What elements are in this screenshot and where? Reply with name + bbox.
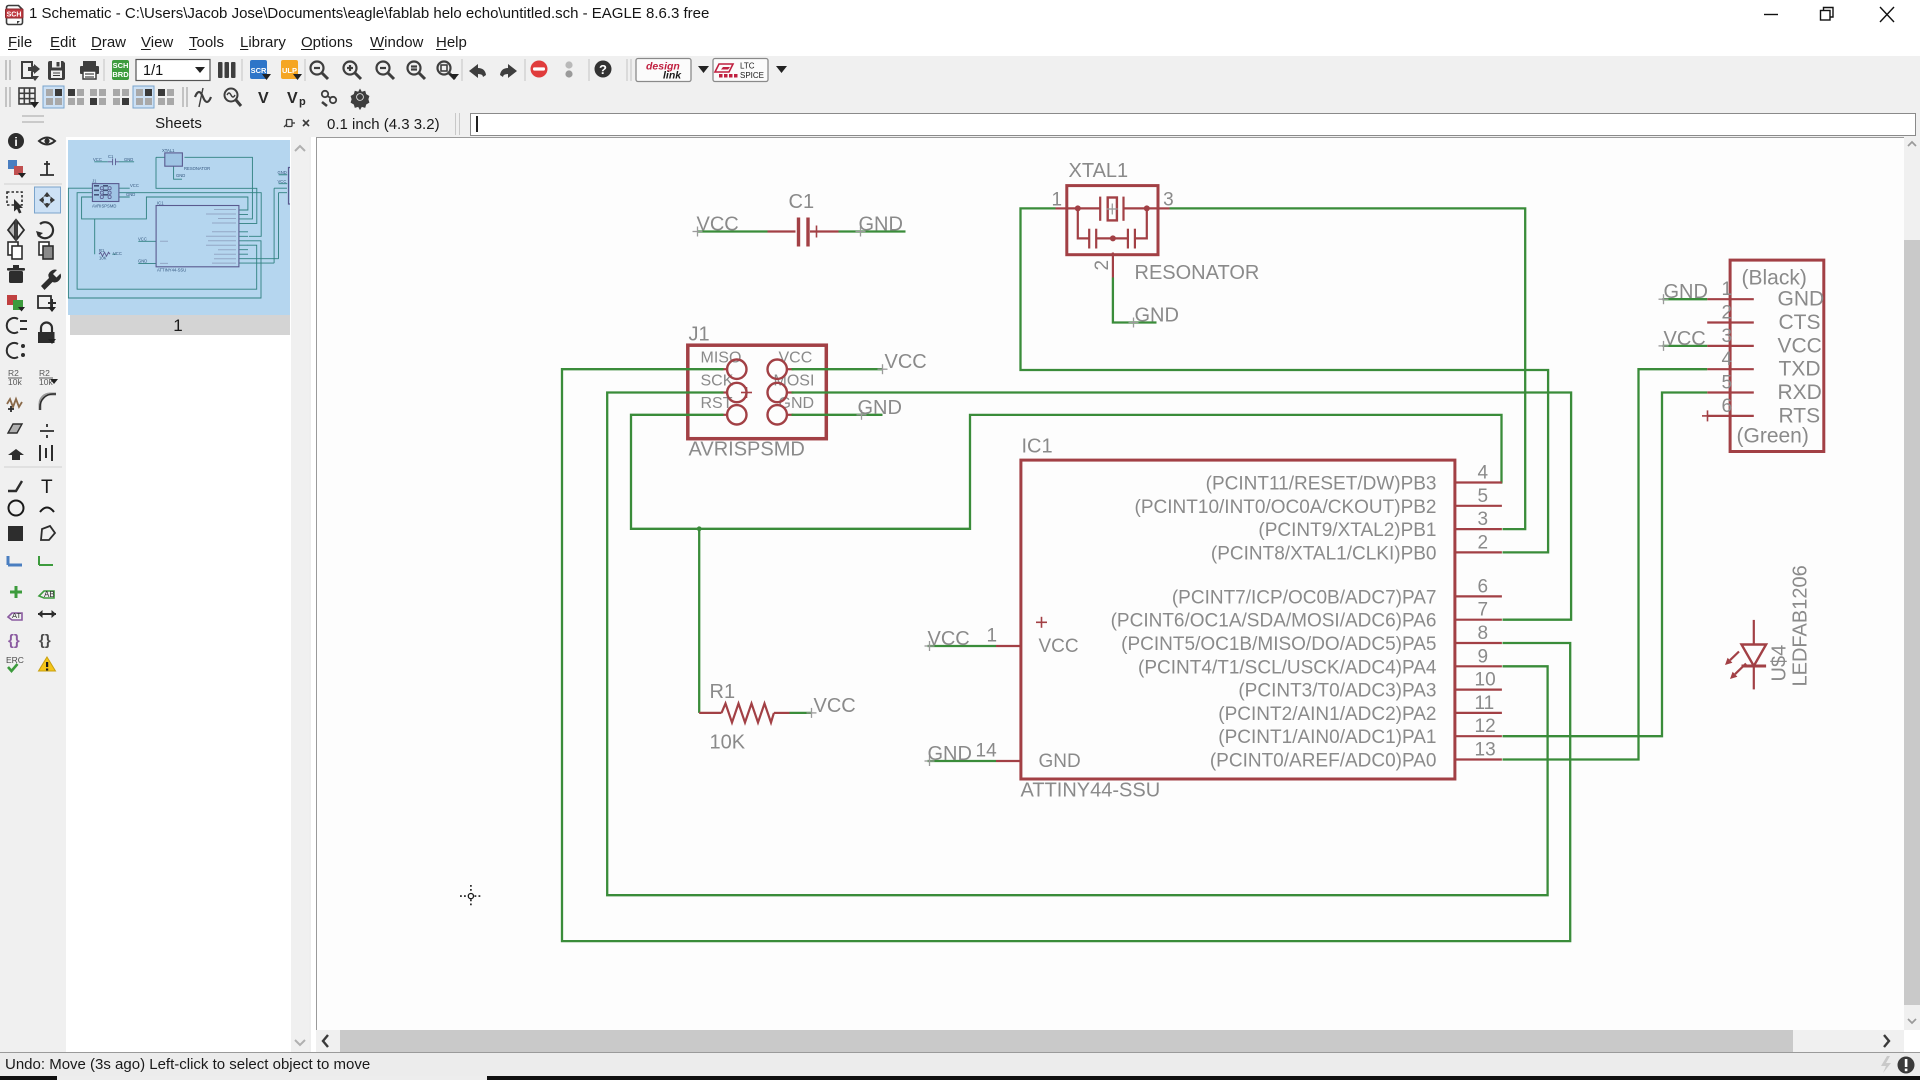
svg-text:(PCINT4/T1/SCL/USCK/ADC4)PA4: (PCINT4/T1/SCL/USCK/ADC4)PA4	[1138, 657, 1437, 678]
svg-text:AB: AB	[44, 590, 55, 599]
svg-text:XTAL1: XTAL1	[162, 148, 175, 153]
svg-text:6: 6	[1478, 576, 1489, 597]
svg-text:14: 14	[976, 741, 998, 762]
svg-text:GND: GND	[176, 173, 185, 178]
svg-text:J1: J1	[92, 179, 97, 184]
svg-text:7: 7	[1478, 600, 1489, 621]
svg-text:(PCINT9/XTAL2)PB1: (PCINT9/XTAL2)PB1	[1258, 520, 1436, 541]
svg-text:2: 2	[1092, 260, 1113, 271]
svg-text:VCC: VCC	[113, 251, 122, 256]
resistor R1 10K	[699, 681, 789, 754]
svg-text:VCC: VCC	[814, 695, 856, 717]
svg-text:LTC: LTC	[740, 62, 755, 71]
svg-text:GND: GND	[126, 192, 135, 197]
svg-text:9: 9	[1478, 646, 1489, 667]
svg-text:VCC: VCC	[278, 179, 287, 184]
svg-text:i: i	[14, 135, 17, 149]
svg-text:(PCINT0/AREF/ADC0)PA0: (PCINT0/AREF/ADC0)PA0	[1210, 751, 1437, 772]
wire net RESET (J1 RST to IC1 PB3)	[631, 415, 1503, 529]
svg-text:10: 10	[1475, 670, 1496, 691]
wire net XTAL pin3 to IC1 PB1	[1170, 208, 1526, 529]
svg-text:ATTINY44-SSU: ATTINY44-SSU	[157, 268, 186, 273]
wire net GND at XTAL pin2	[1113, 278, 1179, 328]
svg-text:AVRISPSMD: AVRISPSMD	[92, 204, 116, 209]
svg-text:VCC: VCC	[779, 350, 813, 367]
svg-text:8: 8	[1478, 623, 1489, 644]
svg-text:SCR: SCR	[251, 66, 267, 75]
svg-text:SPICE: SPICE	[740, 71, 764, 80]
svg-text:3: 3	[1722, 326, 1733, 347]
svg-text:p: p	[299, 96, 306, 108]
svg-text:T: T	[41, 477, 53, 498]
svg-text:ATTINY44-SSU: ATTINY44-SSU	[1021, 780, 1161, 802]
svg-text:GND: GND	[278, 170, 287, 175]
svg-text:CTS: CTS	[1779, 311, 1821, 334]
wire net GND at C1	[839, 214, 906, 237]
svg-text:VCC: VCC	[928, 628, 970, 650]
svg-text:(PCINT10/INT0/OC0A/CKOUT)PB2: (PCINT10/INT0/OC0A/CKOUT)PB2	[1135, 497, 1437, 518]
svg-text:AVRISPSMD: AVRISPSMD	[689, 439, 805, 461]
svg-text:(PCINT11/RESET/DW)PB3: (PCINT11/RESET/DW)PB3	[1206, 474, 1437, 495]
svg-text:LEDFAB1206: LEDFAB1206	[1790, 565, 1812, 686]
svg-text:1: 1	[1722, 279, 1733, 300]
svg-text:(Green): (Green)	[1737, 425, 1809, 448]
svg-text:VCC: VCC	[1039, 636, 1079, 657]
FTDI serial header (Black/Green)	[1702, 260, 1824, 451]
svg-text:VCC: VCC	[1664, 328, 1706, 350]
svg-text:XTAL1: XTAL1	[1069, 160, 1129, 182]
wire net GND at IC1 pin 14	[925, 741, 998, 767]
svg-text:12: 12	[1475, 716, 1496, 737]
svg-text:(PCINT8/XTAL1/CLKI)PB0: (PCINT8/XTAL1/CLKI)PB0	[1211, 543, 1437, 564]
connector J1 AVRISPSMD	[688, 324, 827, 461]
IC1 ATTINY44-SSU	[996, 436, 1502, 802]
svg-text:U$4: U$4	[1769, 645, 1791, 682]
LED U$4 LEDFAB1206	[1725, 565, 1812, 689]
svg-text:GND: GND	[138, 258, 147, 263]
svg-text:GND: GND	[858, 397, 902, 419]
svg-text:GND: GND	[1039, 751, 1081, 772]
svg-text:MOSI: MOSI	[774, 373, 815, 390]
svg-text:2: 2	[1478, 532, 1489, 553]
svg-text:IC1: IC1	[1022, 436, 1053, 458]
svg-text:10K: 10K	[710, 732, 746, 754]
svg-text:(PCINT2/AIN1/ADC2)PA2: (PCINT2/AIN1/ADC2)PA2	[1218, 704, 1436, 725]
wire net VCC at IC1 pin 1	[925, 626, 998, 652]
wire net GND at FTDI pin 1	[1659, 281, 1708, 304]
svg-text:AT: AT	[12, 611, 21, 620]
svg-text:4: 4	[1478, 463, 1489, 484]
svg-text:ULP: ULP	[282, 66, 297, 75]
svg-text:2: 2	[1722, 303, 1733, 324]
mouse crosshair cursor	[460, 885, 482, 907]
svg-text:6: 6	[1722, 396, 1733, 417]
svg-text:GND: GND	[1664, 281, 1708, 303]
svg-text:1: 1	[987, 626, 998, 647]
svg-text:?: ?	[599, 62, 607, 77]
wire net RXD (FTDI pin 5 to IC1 PA1)	[1503, 393, 1708, 737]
svg-text:{}: {}	[8, 632, 20, 649]
wire net VCC (J1)	[792, 351, 927, 374]
svg-text:C1: C1	[108, 154, 114, 159]
svg-text:R1: R1	[99, 248, 105, 253]
svg-text:1/1: 1/1	[143, 63, 163, 79]
svg-text:GND: GND	[928, 743, 972, 765]
svg-text:V: V	[287, 90, 298, 107]
wire net VCC at C1	[693, 214, 768, 237]
svg-text:RESONATOR: RESONATOR	[184, 166, 210, 171]
wire net VCC at R1	[790, 695, 856, 718]
svg-text:VCC: VCC	[697, 214, 739, 236]
svg-text:{}: {}	[39, 632, 51, 649]
junction	[697, 526, 702, 531]
svg-text:13: 13	[1475, 740, 1496, 761]
svg-text:(PCINT6/OC1A/SDA/MOSI/ADC6)PA6: (PCINT6/OC1A/SDA/MOSI/ADC6)PA6	[1111, 611, 1437, 632]
svg-text:(Black): (Black)	[1742, 267, 1807, 290]
wire net MISO (J1 to IC1 PA5)	[562, 369, 1570, 941]
resonator XTAL1	[1052, 160, 1260, 284]
svg-text:link: link	[663, 70, 682, 82]
svg-text:GND: GND	[124, 157, 133, 162]
wire net XTAL pin1 to IC1 PB0	[1021, 208, 1549, 552]
svg-text:10K: 10K	[99, 256, 107, 261]
svg-text:3: 3	[1478, 509, 1489, 530]
svg-text:BRD: BRD	[112, 70, 129, 79]
wire net RESET branch to R1	[698, 529, 700, 713]
svg-text:GND: GND	[1778, 288, 1825, 311]
svg-text:VCC: VCC	[130, 183, 139, 188]
svg-text:4: 4	[1722, 349, 1733, 370]
wire net VCC at FTDI pin 3	[1659, 328, 1708, 351]
wire net MOSI (J1 to IC1 PA6)	[792, 393, 1572, 620]
svg-text:5: 5	[1722, 373, 1733, 394]
svg-text:SCH: SCH	[113, 61, 129, 70]
svg-text:RXD: RXD	[1778, 381, 1822, 404]
wire net SCK (J1 to IC1 PA4)	[607, 393, 1547, 896]
svg-text:GND: GND	[1135, 305, 1179, 327]
svg-text:1: 1	[173, 316, 182, 335]
svg-text:MISO: MISO	[701, 350, 742, 367]
svg-text:(PCINT5/OC1B/MISO/DO/ADC5)PA5: (PCINT5/OC1B/MISO/DO/ADC5)PA5	[1121, 634, 1436, 655]
capacitor C1	[768, 191, 839, 247]
svg-text:TXD: TXD	[1779, 358, 1821, 381]
svg-text:VCC: VCC	[1778, 334, 1822, 357]
svg-text:(PCINT1/AIN0/ADC1)PA1: (PCINT1/AIN0/ADC1)PA1	[1218, 727, 1436, 748]
svg-text:V: V	[258, 90, 269, 107]
svg-text:5: 5	[1478, 486, 1489, 507]
svg-text:ERC: ERC	[6, 655, 24, 665]
wire net TXD (FTDI pin 4 to IC1 PA0)	[1503, 369, 1708, 759]
svg-text:GND: GND	[859, 214, 903, 236]
wire net GND (J1)	[792, 397, 902, 420]
svg-text:(PCINT7/ICP/OC0B/ADC7)PA7: (PCINT7/ICP/OC0B/ADC7)PA7	[1172, 587, 1437, 608]
svg-text:SCH: SCH	[7, 11, 22, 18]
svg-text:(PCINT3/T0/ADC3)PA3: (PCINT3/T0/ADC3)PA3	[1238, 681, 1436, 702]
svg-text:VCC: VCC	[93, 157, 102, 162]
svg-text:VCC: VCC	[885, 351, 927, 373]
svg-text:IC1: IC1	[157, 201, 164, 206]
svg-text:RESONATOR: RESONATOR	[1135, 262, 1260, 284]
svg-text:11: 11	[1475, 693, 1495, 714]
svg-text:J1: J1	[689, 324, 710, 346]
svg-text:C1: C1	[789, 191, 815, 213]
svg-text:VCC: VCC	[138, 236, 147, 241]
svg-text:R1: R1	[710, 681, 736, 703]
